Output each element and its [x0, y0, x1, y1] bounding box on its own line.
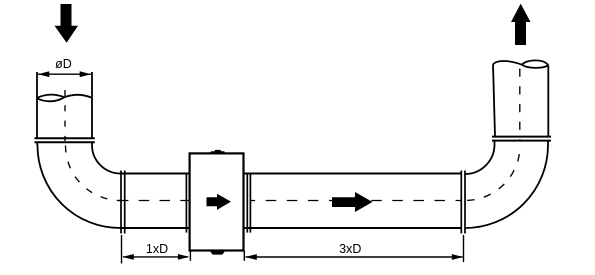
svg-text:øD: øD: [55, 57, 72, 71]
svg-text:1xD: 1xD: [146, 242, 168, 256]
svg-text:3xD: 3xD: [339, 242, 361, 256]
